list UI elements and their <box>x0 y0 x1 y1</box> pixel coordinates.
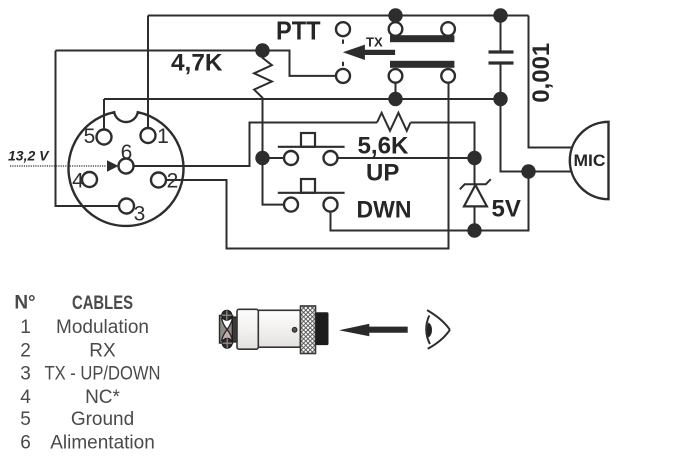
wire top bus down to MIC upper terminal <box>529 16 573 148</box>
svg-text:1: 1 <box>20 317 31 338</box>
pushbutton UP contact right <box>324 151 338 165</box>
svg-text:Alimentation: Alimentation <box>50 433 155 454</box>
junction dot ground bus / switch <box>388 92 402 106</box>
view arrow <box>339 324 408 336</box>
capacitor C1 plate top <box>489 50 514 53</box>
svg-text:5: 5 <box>84 125 96 148</box>
svg-text:6: 6 <box>121 141 133 164</box>
svg-text:PTT: PTT <box>276 16 321 46</box>
svg-text:TX: TX <box>366 35 383 50</box>
eye symbol iris <box>427 323 432 338</box>
arrow into pin 6 <box>107 160 119 171</box>
wire junction to UP left contact <box>263 157 285 159</box>
resistor R2 5,6K horizontal zigzag <box>377 113 411 131</box>
plug drawing clamp screw bottom <box>222 338 232 348</box>
DIN pin 1 <box>141 128 156 143</box>
junction dot zener bottom <box>467 223 481 237</box>
svg-text:2: 2 <box>167 170 179 193</box>
pushbutton UP contact left <box>284 151 298 165</box>
switch S1 lower contact left <box>389 69 403 83</box>
wire pin6 to 5,6K <box>134 123 378 167</box>
junction dot top bus / capacitor <box>493 8 507 22</box>
TX arrow <box>343 45 395 60</box>
pushbutton UP body bar <box>278 146 345 148</box>
svg-text:4: 4 <box>72 170 84 193</box>
DIN pin 5 <box>97 130 112 145</box>
plug drawing barrel main <box>258 310 300 347</box>
wire capacitor top lead <box>500 16 502 53</box>
plug drawing barrel screw <box>292 327 297 332</box>
plug drawing clamp hourglass bottom funnel <box>222 330 233 341</box>
svg-text:1: 1 <box>157 125 169 148</box>
wire junction down to DWN left contact <box>263 158 285 205</box>
svg-text:5V: 5V <box>492 196 521 223</box>
wire junction to PTT pole <box>263 51 337 76</box>
junction dot zener top <box>467 151 481 165</box>
eye symbol upper lash <box>427 310 450 330</box>
junction dot ground bus / capacitor <box>493 92 507 106</box>
junction dot MIC lower <box>521 164 535 178</box>
pushbutton DWN contact left <box>284 198 298 212</box>
svg-text:5: 5 <box>20 409 31 430</box>
switch S1 pole lower dash <box>342 62 344 66</box>
wire cap bottom to MIC lower terminal <box>501 99 572 172</box>
svg-text:RX: RX <box>89 340 116 361</box>
wire ground bus y99 <box>104 98 501 100</box>
DIN pin 6 <box>119 159 134 174</box>
eye symbol lower lash <box>428 330 450 349</box>
DIN connector outline with notch <box>68 112 183 226</box>
plug drawing clamp screw top <box>222 310 232 320</box>
svg-text:DWN: DWN <box>357 197 412 224</box>
wire switch lower-left to ground bus <box>395 83 397 99</box>
svg-text:2: 2 <box>20 340 31 361</box>
svg-text:Ground: Ground <box>71 409 134 430</box>
wire pin1 riser <box>147 16 149 130</box>
switch S1 pole upper circle <box>336 22 350 36</box>
svg-text:TX - UP/DOWN: TX - UP/DOWN <box>45 364 161 385</box>
zener diode D1 triangle <box>464 185 487 206</box>
plug drawing rear black section <box>316 312 329 345</box>
svg-text:6: 6 <box>20 433 31 454</box>
DIN pin 4 <box>82 172 97 187</box>
plug drawing clamp hourglass top funnel <box>222 319 233 330</box>
switch S1 upper contact left <box>389 22 403 36</box>
DIN pin 2 <box>151 173 166 188</box>
wire DWN right contact to zener bottom <box>331 212 469 231</box>
pushbutton UP actuator square <box>301 133 315 147</box>
switch S1 upper bar <box>390 35 454 42</box>
resistor R1 4,7K vertical zigzag <box>254 51 272 158</box>
svg-text:4: 4 <box>20 387 31 408</box>
capacitor C1 plate bottom <box>489 61 514 64</box>
wire 4,7K feed from left vertical <box>56 50 263 52</box>
wire top bus <box>148 15 529 17</box>
switch S1 pole lower circle <box>336 69 350 83</box>
svg-text:3: 3 <box>134 203 146 226</box>
wire UP right contact to zener junction <box>338 157 469 159</box>
wire 5,6K to zener top <box>411 123 475 152</box>
dotted line 13,2V feed <box>10 165 106 167</box>
svg-text:N°: N° <box>14 293 35 314</box>
plug drawing barrel front <box>237 309 258 349</box>
zener diode D1 lead bottom <box>474 206 476 230</box>
switch S1 upper contact right <box>441 22 455 36</box>
eye symbol left arc <box>426 316 430 345</box>
pushbutton DWN body bar <box>278 192 345 194</box>
wire left vertical to pin3 <box>56 51 120 207</box>
wire pin5 riser <box>103 99 105 130</box>
switch S1 lower bar <box>390 61 454 68</box>
zener diode D1 cathode bar <box>460 179 491 189</box>
svg-text:Modulation: Modulation <box>56 317 149 338</box>
pushbutton DWN contact right <box>324 198 338 212</box>
plug drawing step ring dark <box>232 317 237 342</box>
junction dot UP-DWN left <box>255 151 269 165</box>
svg-text:NC*: NC* <box>85 387 120 408</box>
junction dot 4,7K top <box>255 43 269 57</box>
zener diode D1 lead top <box>474 158 476 184</box>
plug drawing clamp bracket <box>220 316 233 344</box>
svg-text:UP: UP <box>366 159 399 186</box>
svg-text:5,6K: 5,6K <box>358 133 410 160</box>
plug drawing knurled ring <box>301 306 316 354</box>
MIC symbol body <box>570 122 609 199</box>
switch S1 pole upper dash <box>342 40 344 44</box>
svg-text:4,7K: 4,7K <box>171 50 223 77</box>
switch S1 lower contact right <box>441 69 455 83</box>
wire pin2 to switch lower right <box>166 83 449 249</box>
svg-text:3: 3 <box>20 364 31 385</box>
svg-text:0,001: 0,001 <box>528 43 555 103</box>
junction dot top bus / switch <box>388 8 402 22</box>
pushbutton DWN actuator square <box>301 179 315 193</box>
svg-text:CABLES: CABLES <box>72 293 133 314</box>
DIN pin 3 <box>119 199 134 214</box>
wire switch upper-left to top bus <box>395 16 397 23</box>
wire zener bottom to MIC junction <box>475 172 529 231</box>
svg-text:13,2 V: 13,2 V <box>8 148 50 164</box>
svg-text:MIC: MIC <box>574 152 606 170</box>
wire capacitor bottom lead <box>500 63 502 99</box>
